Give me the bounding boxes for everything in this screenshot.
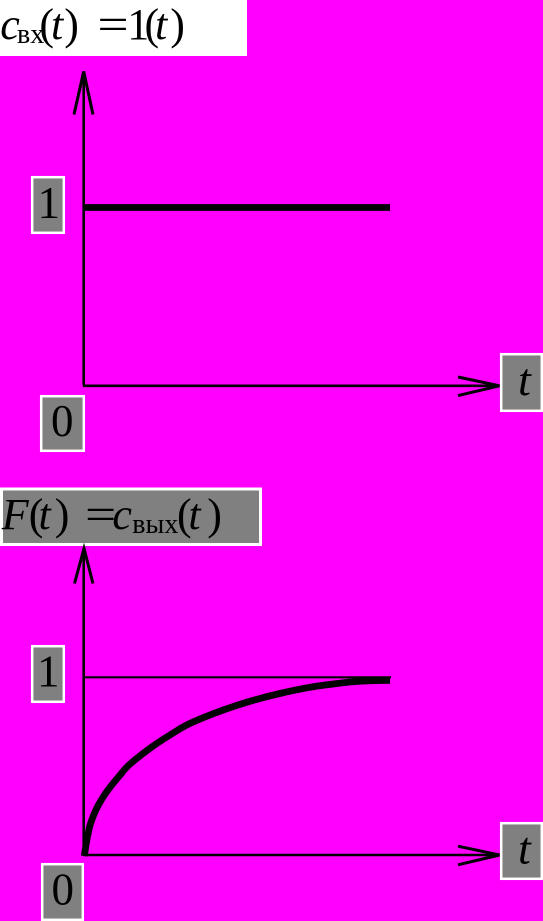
- svg-text:t: t: [518, 354, 532, 405]
- svg-text:1: 1: [37, 647, 60, 697]
- svg-text:0: 0: [51, 396, 74, 446]
- svg-text:F(t)=cвых(t): F(t)=cвых(t): [1, 490, 222, 540]
- svg-text:1: 1: [38, 178, 61, 228]
- svg-text:0: 0: [52, 865, 75, 915]
- svg-text:t: t: [518, 823, 532, 874]
